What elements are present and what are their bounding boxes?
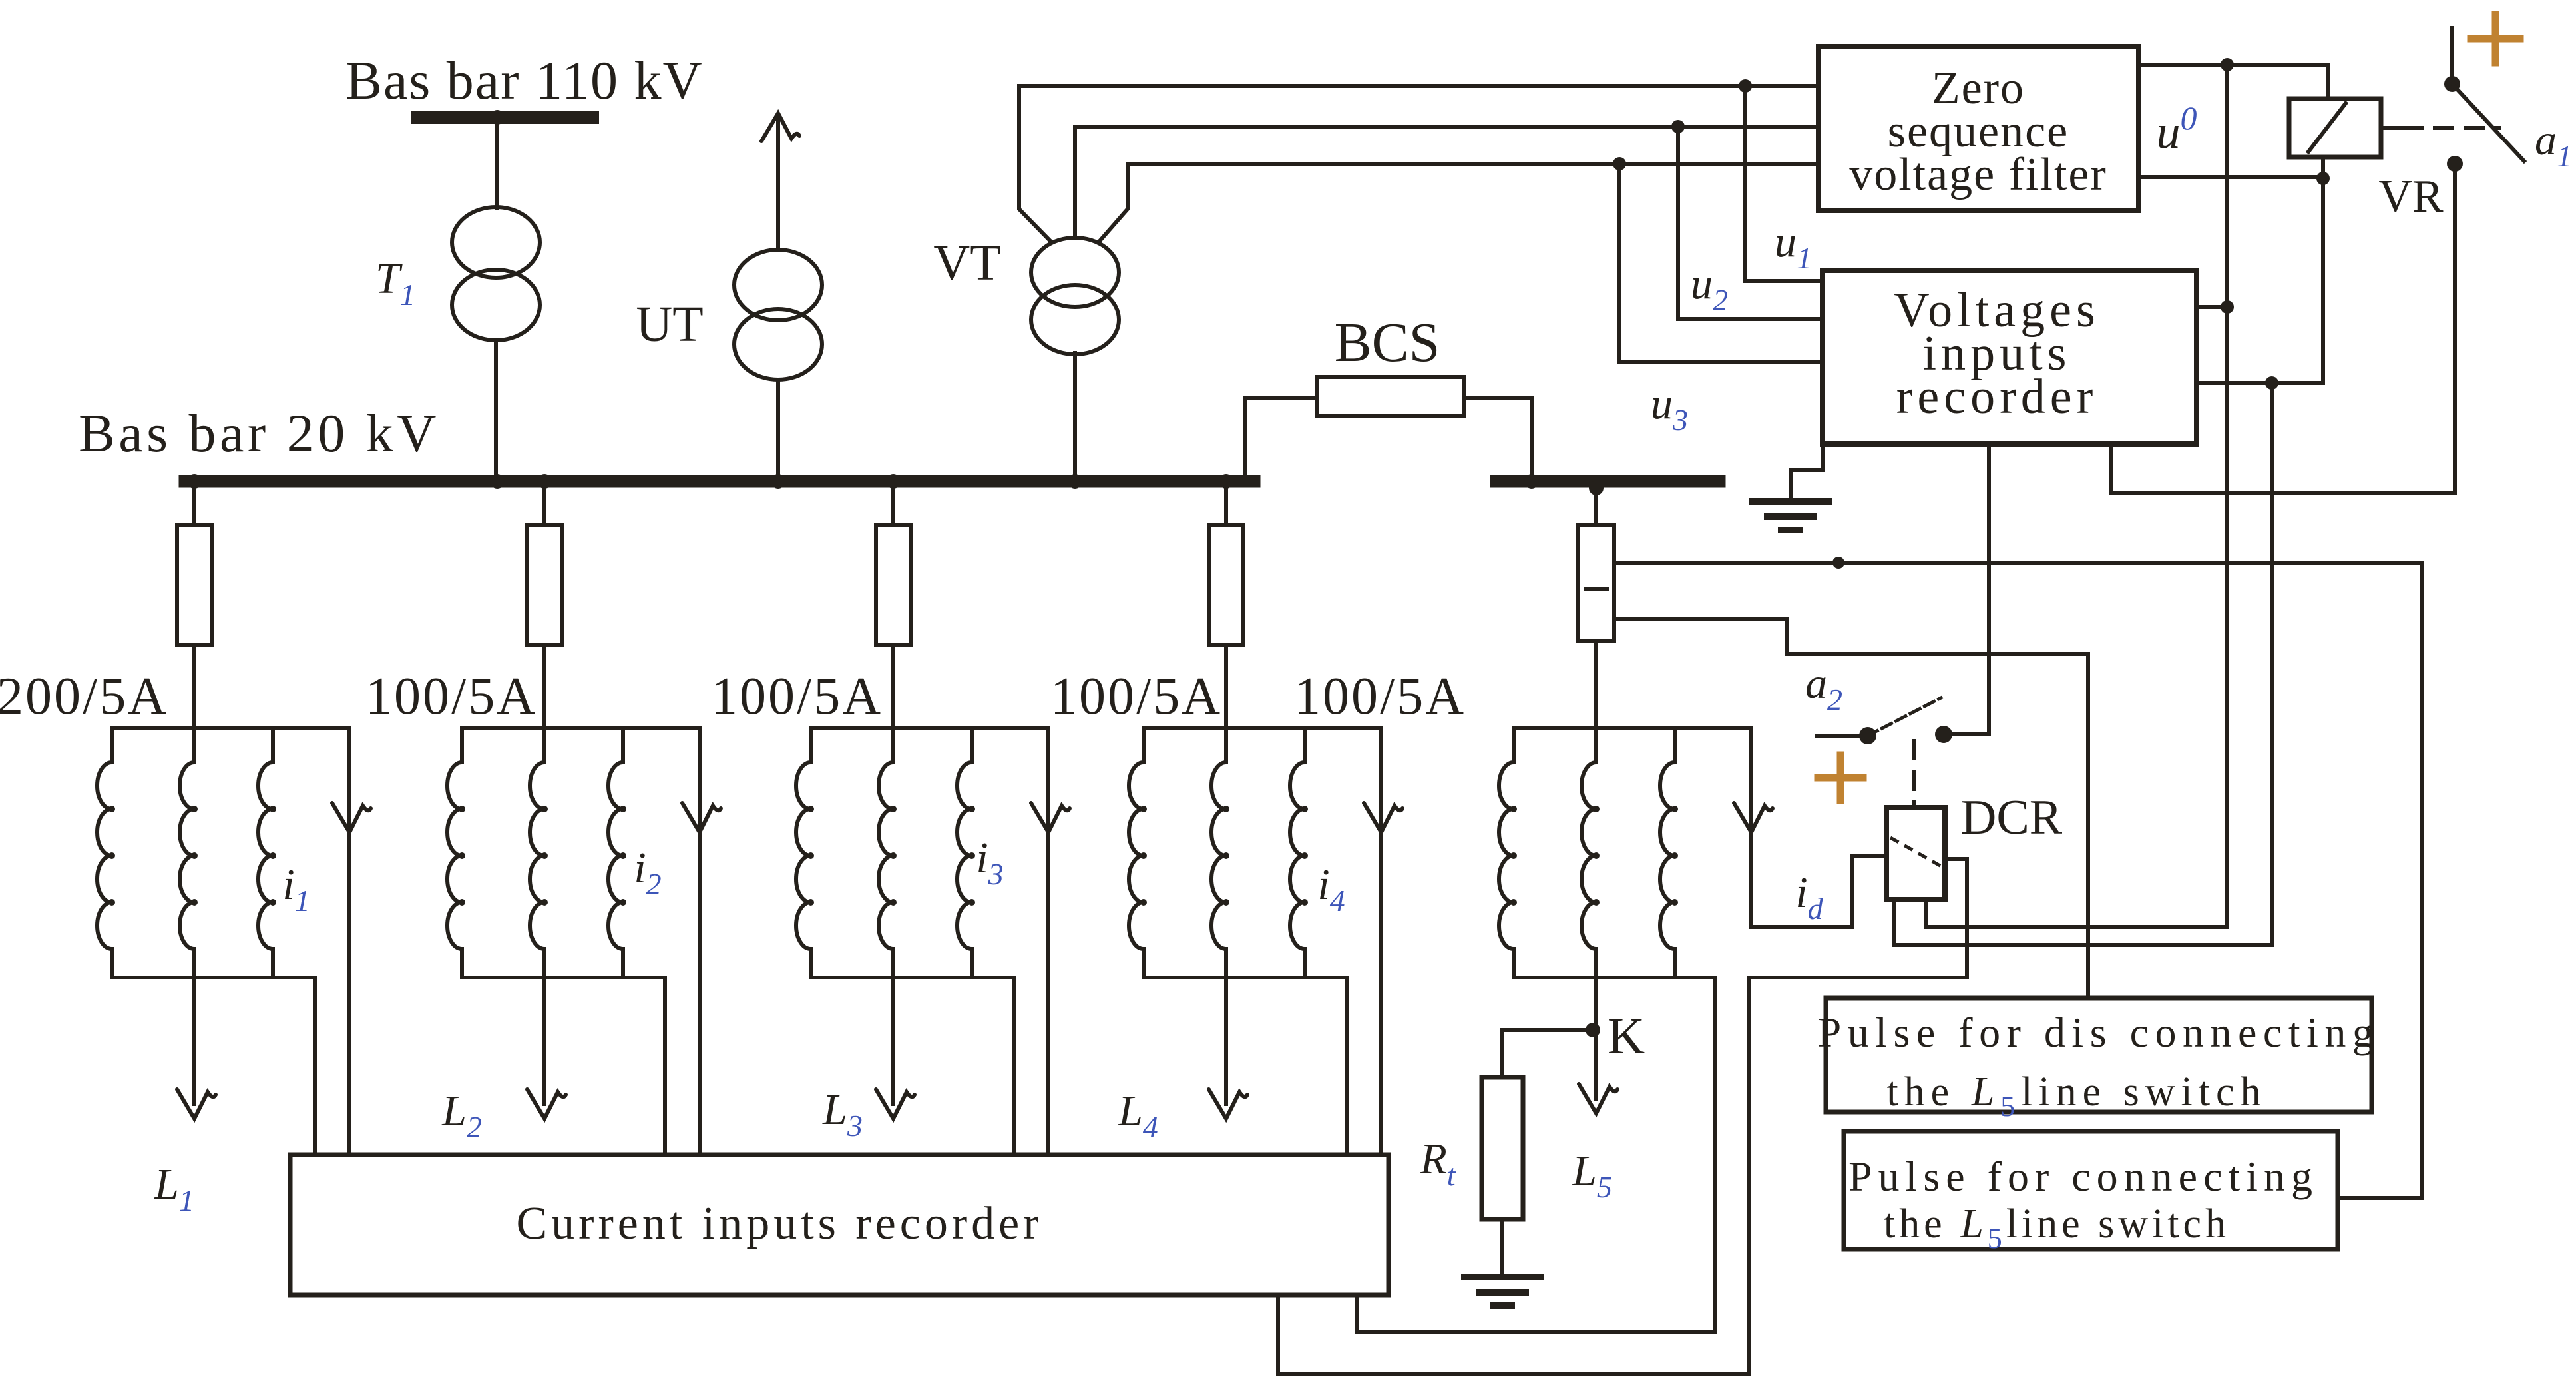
plus sign at a1 (2471, 35, 2520, 43)
resistor Rt (1482, 1077, 1523, 1219)
CT group 4: top bar (1144, 726, 1381, 730)
wire: recorder bottom to DCR loop (outer) (1278, 977, 1749, 1374)
fuse 4 (1209, 525, 1243, 645)
svg-text:DCR: DCR (1961, 790, 2063, 845)
node: T1 tap on 110 kV bus (490, 110, 505, 125)
wire: i1 output to current recorder (347, 728, 351, 1155)
svg-text:Pulse for dis connecting: Pulse for dis connecting (1818, 1009, 2380, 1056)
relay VR (2289, 99, 2381, 157)
wire: i3 output to current recorder (1046, 728, 1050, 1155)
wire: DCR mechanical link (dashed) to a2 (1912, 741, 1916, 806)
wire: u3 drop to voltages recorder (1619, 164, 1820, 362)
feeder L5 outgoing arrow (1594, 977, 1598, 1099)
wire: recorder bottom to group5 return (inner loop) (1357, 1295, 1715, 1332)
svg-text:100/5A: 100/5A (1294, 667, 1466, 726)
CT group 2: top bar (462, 726, 700, 730)
wire: DCR bottom-left stub to output2 vertical (1894, 900, 2272, 945)
wire: bus to fuse 1 (192, 487, 196, 525)
node: feeder L4 on bus (1219, 474, 1233, 489)
wire: Rt to ground (1500, 1219, 1504, 1276)
node: feeder L2 on bus (537, 474, 552, 489)
svg-text:Bas bar 110 kV: Bas bar 110 kV (345, 50, 703, 111)
CT group 3: top bar (811, 726, 1048, 730)
bus bar 20 kV (right section) (1496, 475, 1719, 488)
wire: a2 plus terminal (1817, 734, 1864, 738)
wire: VT phase 2 to filter (line u2) (1075, 127, 1819, 238)
bus bar 20 kV (main section) (185, 475, 1254, 488)
box: zero sequence voltage filter (1819, 47, 2139, 210)
CT group 3: coil C (970, 728, 974, 762)
transformer T1 (452, 207, 540, 278)
ground: voltages recorder (1753, 498, 1828, 505)
wire: DCR bottom-center stub to long vertical (1926, 900, 2227, 927)
CT group 5: coil A (1512, 728, 1516, 762)
feeder L2 outgoing arrow (542, 977, 546, 1104)
CT group 4: coil A (1142, 728, 1146, 762)
CT group 2: coil C (621, 728, 625, 762)
svg-text:200/5A: 200/5A (0, 667, 168, 726)
box: pulse for disconnecting L5 (1826, 998, 2372, 1112)
svg-text:100/5A: 100/5A (711, 667, 883, 726)
fuse 3 (876, 525, 911, 645)
svg-text:UT: UT (636, 296, 703, 352)
wire: voltages recorder ground stub (1791, 444, 1823, 500)
wire: BCS right to right bus (1464, 398, 1532, 475)
CT group 3: bottom bar (811, 976, 1014, 979)
node: small junction on wire A (1832, 557, 1844, 569)
wire: voltages recorder output 2 (2197, 381, 2323, 385)
wire: i2 output to current recorder (698, 728, 702, 1155)
wire: group5 return vertical to recorder loop (1713, 977, 1717, 1332)
wire: DCR right side down (1945, 859, 1967, 977)
wire: fuse 2 to CT group 2 (542, 645, 546, 728)
feeder L3 outgoing arrow (891, 977, 895, 1104)
CT group 5: coil C (1673, 728, 1677, 762)
wire: id output down to DCR (1751, 728, 1886, 927)
svg-text:Current inputs recorder: Current inputs recorder (516, 1198, 1042, 1249)
switch a2 (contacts and blade) (1859, 727, 1876, 744)
CT group 3: coil B (on feeder) (891, 728, 895, 762)
fuse 1 (177, 525, 212, 645)
node: feeder L3 on bus (886, 474, 901, 489)
svg-text:recorder: recorder (1896, 370, 2097, 424)
svg-text:K: K (1608, 1007, 1645, 1065)
wire: BCS left to main bus (1245, 398, 1317, 475)
box: voltages inputs recorder (1823, 270, 2197, 444)
feeder L4 outgoing arrow (1224, 977, 1228, 1104)
wire: VT phase 3 to filter (line u3) (1100, 164, 1819, 241)
plus sign at a2 (1818, 774, 1863, 782)
fuse/sensor on L5 feeder (1578, 525, 1614, 641)
svg-text:Pulse for connecting: Pulse for connecting (1848, 1153, 2318, 1200)
node: junction output2 (2265, 376, 2278, 390)
box: current inputs recorder (290, 1155, 1389, 1295)
wire: 110 kV bus to T1 (495, 124, 499, 208)
CT group 2: coil B (on feeder) (542, 728, 546, 762)
node: u1 tap (1739, 79, 1752, 93)
wire: CT group 1 return to current recorder (313, 977, 317, 1155)
wire: filter output u0 bottom (2139, 175, 2323, 179)
svg-text:100/5A: 100/5A (365, 667, 537, 726)
svg-text:VR: VR (2378, 171, 2444, 222)
wire: VT to 20 kV bus (1073, 353, 1077, 475)
CT group 1: coil C (271, 728, 275, 762)
wire: a1 bottom to voltages recorder bottom (2111, 164, 2455, 493)
node: fuse5 tap (1589, 481, 1604, 495)
wire: a1 plus feed (2450, 28, 2454, 80)
ground: Rt (1464, 1274, 1540, 1280)
CT group 5: top bar (1514, 726, 1751, 730)
wire: CT group 4 return to current recorder (1345, 977, 1349, 1155)
CT group 1: top bar (112, 726, 349, 730)
wire: filter output u0 top (2139, 65, 2328, 99)
wire: VT phase 1 to filter (line u1) (1019, 86, 1819, 241)
wire A: fuse to pulse-for-connecting box (via right) (1614, 563, 2422, 1198)
wire B: fuse to pulse-for-disconnecting box (1614, 619, 2088, 998)
wire: T1 to 20 kV bus (494, 340, 498, 475)
CT group 4: coil C (1303, 728, 1307, 762)
svg-text:BCS: BCS (1335, 312, 1440, 374)
node: junction filter bottom output / VR (2316, 172, 2330, 185)
wire: K to Rt (1502, 1030, 1593, 1077)
CT group 1: coil B (on feeder) (192, 728, 196, 762)
node: junction filter top output (2221, 58, 2234, 71)
node: u2 tap (1671, 120, 1685, 133)
wire: voltages recorder output 1 (2197, 305, 2227, 309)
wire: vertical from output2 down to DCR coil wire (2270, 383, 2274, 945)
CT group 2: bottom bar (462, 976, 665, 979)
transformer VT (1031, 238, 1119, 307)
wire: VR bottom to voltages output line (2321, 157, 2325, 383)
wire: bus to fuse 3 (891, 487, 895, 525)
node: BCS on right bus (1524, 474, 1539, 489)
wire: right bus to fuse 5 (1594, 488, 1598, 525)
wire: CT group 3 return to current recorder (1012, 977, 1016, 1155)
feeder L1 outgoing arrow (192, 977, 196, 1104)
CT group 3: coil A (809, 728, 813, 762)
wire: bus to fuse 4 (1224, 487, 1228, 525)
CT group 5: bottom bar (1514, 976, 1715, 979)
wire: fuse 4 to CT group 4 (1224, 645, 1228, 728)
node: u3 tap (1613, 157, 1626, 170)
node K (1586, 1023, 1600, 1037)
node: T1 on bus (490, 474, 505, 489)
CT group 5: coil B (on feeder) (1594, 728, 1598, 762)
node: VT on bus (1068, 474, 1082, 489)
CT group 1: coil A (110, 728, 114, 762)
wire: UT up-feeder with arrow (776, 117, 780, 250)
wire: u2 drop to voltages recorder (1678, 127, 1820, 319)
wire: fuse 1 to CT group 1 (192, 645, 196, 728)
svg-text:100/5A: 100/5A (1050, 667, 1222, 726)
wire: a2 to voltages recorder bottom (1944, 444, 1989, 734)
wire: VR mechanical link (dashed) to a1 (2381, 126, 2404, 130)
CT group 4: bottom bar (1144, 976, 1347, 979)
wire: i4 output to current recorder (1379, 728, 1383, 1155)
wire: long vertical from filter top output down to DCR return (2225, 65, 2229, 927)
node: junction output1 / long vertical (2221, 300, 2234, 314)
CT group 4: coil B (on feeder) (1224, 728, 1228, 762)
wire: fuse 3 to CT group 3 (891, 645, 895, 728)
node: UT on bus (771, 474, 785, 489)
wire: fuse5 to CT group 5 (1594, 641, 1598, 728)
wire: UT to 20 kV bus (776, 380, 780, 475)
svg-text:voltage filter: voltage filter (1849, 149, 2107, 200)
wire: CT group 2 return to current recorder (663, 977, 667, 1155)
wire: bus to fuse 2 (542, 487, 546, 525)
CT group 2: coil A (460, 728, 464, 762)
bus bar 110 kV (418, 111, 592, 124)
node: feeder L1 on bus (187, 474, 202, 489)
transformer UT (734, 250, 822, 320)
box: pulse for connecting L5 (1844, 1131, 2338, 1249)
switch a1 (contacts and blade) (2444, 76, 2460, 92)
bus coupler switch BCS (1317, 377, 1464, 416)
wire: u1 drop to voltages recorder (1745, 86, 1820, 281)
fuse 2 (527, 525, 562, 645)
CT group 1: bottom bar (112, 976, 315, 979)
svg-text:VT: VT (933, 235, 1000, 291)
svg-text:Bas bar 20 kV: Bas bar 20 kV (79, 403, 440, 463)
relay DCR (1886, 808, 1945, 900)
wire: DCR loop horizontal at group5 bottom level (1749, 976, 1967, 979)
